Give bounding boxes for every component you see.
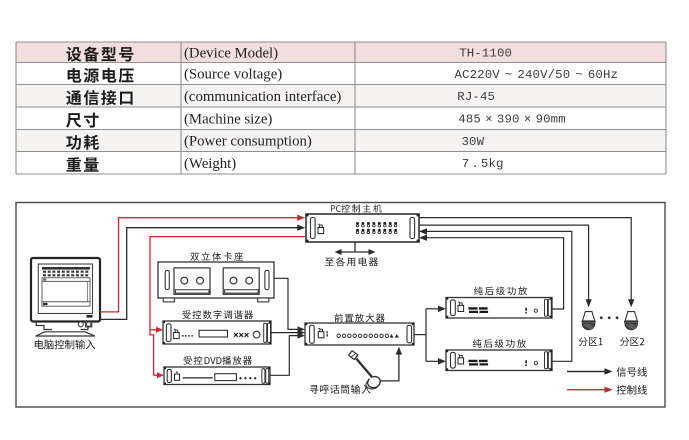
svg-text:(Power consumption): (Power consumption): [184, 134, 312, 150]
svg-text:7.5kg: 7.5kg: [462, 157, 504, 171]
svg-text:AC220V~240V/50~60Hz: AC220V~240V/50~60Hz: [455, 68, 619, 82]
svg-text:TH-1100: TH-1100: [459, 47, 512, 61]
svg-text:(Machine size): (Machine size): [184, 111, 272, 127]
svg-text:30W: 30W: [462, 135, 485, 149]
svg-text:(Weight): (Weight): [184, 156, 236, 172]
svg-text:RJ-45: RJ-45: [457, 90, 495, 104]
svg-text:(communication interface): (communication interface): [184, 89, 341, 105]
svg-text:485×390×90mm: 485×390×90mm: [458, 113, 566, 127]
svg-text:(Source voltage): (Source voltage): [184, 67, 282, 83]
svg-text:(Device Model): (Device Model): [184, 45, 278, 61]
